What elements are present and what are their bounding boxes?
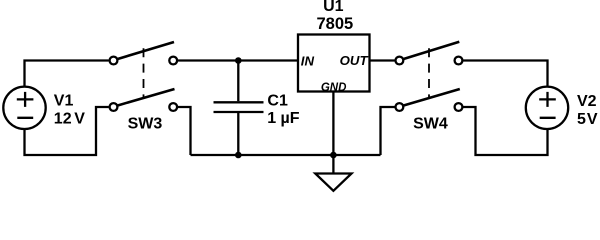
svg-text:C1: C1 — [267, 93, 288, 110]
svg-text:SW3: SW3 — [128, 115, 163, 132]
wire SW3 upper throw to IN (top middle rail) — [177, 59, 298, 61]
ground — [315, 174, 351, 191]
wire SW4 upper throw to V2 top — [463, 61, 548, 86]
svg-text:V2: V2 — [577, 93, 597, 110]
svg-text:7805: 7805 — [316, 15, 353, 33]
wire U1 GND pin — [332, 92, 334, 174]
switch SW3 lower throw terminal — [169, 103, 177, 111]
V1 minus sign — [17, 117, 33, 119]
switch SW4 lower pivot terminal — [396, 103, 404, 111]
wire OUT pin to SW4 — [370, 59, 395, 61]
switch SW4 lower throw terminal — [455, 103, 463, 111]
V2 plus sign — [539, 92, 556, 107]
SW3 gang link (dashed) — [143, 48, 145, 98]
capacitor C1 bottom plate — [214, 111, 264, 113]
svg-text:IN: IN — [301, 53, 315, 68]
node junction dot ground — [330, 152, 337, 159]
voltage source V1 — [3, 87, 45, 129]
switch SW3 upper pivot terminal — [110, 57, 118, 65]
svg-text:1 µF: 1 µF — [267, 110, 300, 127]
wire bottom middle rail — [191, 154, 381, 156]
wire riser bottom rail to SW4 lower pole — [381, 107, 395, 155]
switch SW3 upper throw terminal — [169, 57, 177, 65]
wire SW3 lower throw to bottom rail — [177, 107, 190, 155]
svg-text:GND: GND — [321, 82, 347, 94]
wire SW4 lower throw to V2 bottom — [463, 107, 548, 155]
wire V1 top stem and top-left rail — [25, 61, 109, 87]
svg-text:V: V — [587, 111, 598, 128]
svg-text:SW4: SW4 — [413, 115, 448, 132]
switch SW4 upper throw terminal — [455, 57, 463, 65]
switch SW4 lower lever — [403, 89, 460, 106]
svg-text:V: V — [74, 111, 85, 128]
switch SW3 upper lever — [117, 42, 174, 59]
node junction dot bottom of C1 — [235, 152, 242, 159]
SW4 gang link (dashed) — [428, 48, 430, 98]
switch SW4 upper pivot terminal — [396, 57, 404, 65]
svg-text:U1: U1 — [323, 0, 344, 15]
wire C1 bottom stem — [237, 113, 239, 155]
capacitor C1 top plate — [214, 101, 264, 103]
V1 plus sign — [17, 92, 34, 107]
op-amp U1 regulator box — [298, 35, 370, 92]
svg-text:12: 12 — [54, 111, 72, 128]
V2 minus sign — [540, 117, 556, 119]
switch SW4 upper lever — [403, 42, 460, 59]
node junction dot top of C1 — [235, 57, 242, 64]
voltage source V2 — [526, 87, 568, 129]
svg-text:5: 5 — [577, 111, 586, 128]
svg-text:OUT: OUT — [340, 53, 369, 68]
switch SW3 lower lever — [117, 89, 175, 106]
wire V1 bottom stem, bottom-left rail, riser to SW3 lower pole — [25, 107, 109, 155]
svg-text:V1: V1 — [54, 93, 74, 110]
wire C1 top stem — [237, 61, 239, 102]
switch SW3 lower pivot terminal — [110, 103, 118, 111]
